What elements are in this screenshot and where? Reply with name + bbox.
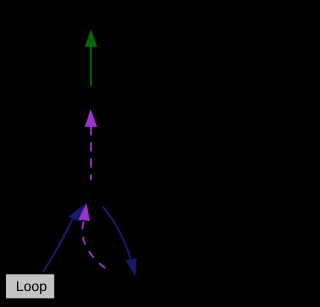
wire: blue edge from Loop node up to hidden node	[43, 217, 74, 273]
green arrowhead	[85, 31, 96, 47]
node Loop label	[17, 281, 46, 294]
wire: green inheritance edge line	[90, 46, 92, 86]
blue arrowhead (pointing up-right)	[70, 206, 84, 222]
wire: purple dashed usage edge line	[90, 126, 92, 180]
blue bottom arrowhead (pointing down)	[126, 259, 136, 275]
purple loop arrowhead (pointing up)	[79, 205, 89, 221]
wire: purple dashed curved edge going up-left	[82, 220, 109, 271]
node Loop box	[6, 274, 54, 298]
purple arrowhead	[85, 111, 96, 127]
wire: blue curved edge going down-right	[103, 206, 131, 258]
